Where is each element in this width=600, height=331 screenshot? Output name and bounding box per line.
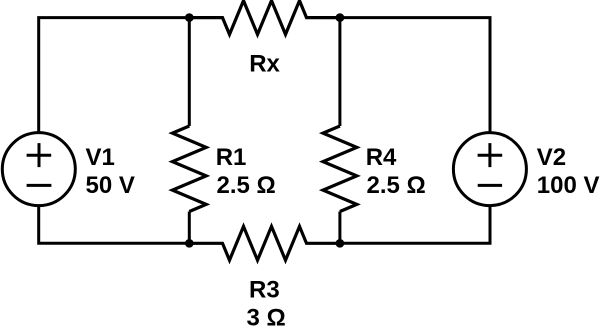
V2 minus sign	[478, 184, 502, 187]
wire top-left: V1 top to node A	[39, 18, 190, 132]
V1 minus sign	[27, 184, 52, 187]
resistor R3 (bottom horizontal)	[189, 226, 340, 260]
node B junction dot (top right)	[336, 13, 345, 22]
wire node A down to R1 top	[188, 18, 191, 126]
wire node D to bottom-right corner to V2 bottom	[340, 206, 490, 243]
node D junction dot (bottom right)	[336, 239, 345, 248]
svg-text:3 Ω: 3 Ω	[247, 305, 286, 327]
svg-text:V1: V1	[86, 144, 115, 171]
voltage source V2 circle	[453, 133, 526, 206]
resistor R4 (right vertical)	[323, 126, 357, 212]
wire node B down to R4 top	[338, 18, 341, 126]
svg-text:R3: R3	[249, 277, 280, 304]
wire R1 bottom to node C	[188, 212, 191, 244]
node A junction dot (top left)	[185, 13, 194, 22]
resistor R1 (left vertical)	[172, 126, 206, 212]
resistor Rx (top horizontal)	[189, 1, 340, 35]
svg-text:2.5 Ω: 2.5 Ω	[217, 172, 276, 199]
svg-text:100 V: 100 V	[537, 172, 600, 199]
V2 plus sign	[478, 143, 503, 167]
svg-text:Rx: Rx	[249, 50, 280, 77]
V1 plus sign	[27, 143, 52, 167]
node C junction dot (bottom left)	[185, 239, 194, 248]
wire node B to top-right corner to V2 top	[340, 18, 490, 133]
svg-text:50 V: 50 V	[86, 172, 135, 199]
voltage source V1 circle	[2, 133, 75, 206]
wire R4 bottom to node D	[338, 212, 341, 244]
svg-text:R1: R1	[216, 144, 247, 171]
svg-text:R4: R4	[366, 144, 397, 171]
wire bottom-left: V1 bottom to node C	[39, 207, 190, 244]
svg-text:V2: V2	[537, 144, 566, 171]
svg-text:2.5 Ω: 2.5 Ω	[367, 172, 426, 199]
